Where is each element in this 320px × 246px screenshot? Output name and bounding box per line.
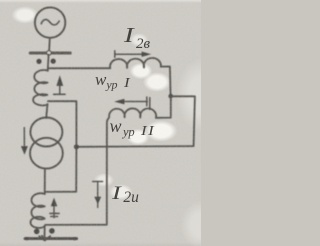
- wire right side to junction J2: [77, 145, 194, 148]
- label I2i: [112, 184, 139, 205]
- open junction circle on busbar: [47, 51, 51, 55]
- arrow left (annotation above w_ur_II) with double tick: [124, 101, 147, 103]
- wire w_ur_I to junction: [161, 67, 171, 96]
- winding w_ur_I (horizontal coil, loops up): [110, 58, 161, 68]
- busbar junction hatching: [39, 236, 50, 241]
- polarity dot b: [51, 59, 56, 64]
- wire w_ur_II left end down and to main line: [45, 122, 107, 225]
- bottom dot a: [34, 229, 40, 235]
- arrow up (annotation beside L1): [59, 85, 61, 94]
- arrow right I2v (top right annotation): [114, 51, 116, 57]
- wire T1 down to reactor L2: [44, 169, 46, 195]
- wire J1 down to winding w_ur_II: [156, 96, 171, 118]
- wire L1 to transformer: [46, 104, 47, 118]
- arrow down (primary current, left of T1): [23, 128, 25, 147]
- AC source G1: [35, 7, 65, 37]
- polarity dot a: [36, 59, 41, 64]
- wire J1 right and down right side: [171, 96, 195, 146]
- reactor L1 (top left coil): [33, 70, 48, 105]
- wire J2 down then left to main line: [45, 147, 76, 192]
- reactor L2 (bottom left coil): [30, 193, 44, 228]
- transformer T1 winding 2: [30, 138, 63, 169]
- wire L2 to bottom busbar: [44, 226, 46, 238]
- junction dot J1: [168, 94, 173, 99]
- junction dot J2: [74, 144, 79, 149]
- sine wave of source: [41, 20, 59, 25]
- winding w_ur_II (horizontal coil, loops up): [107, 108, 156, 122]
- label I2v: [124, 25, 150, 53]
- wire J2 up then left to main line: [48, 101, 77, 147]
- transformer T1 winding 1: [30, 118, 62, 147]
- wire source to busbar: [48, 38, 51, 52]
- label w_ur_II: [110, 117, 153, 139]
- wire busbar to reactor L1: [47, 54, 50, 70]
- node: branch to winding w_ur_I: [48, 67, 110, 69]
- label w_ur_I: [95, 71, 129, 91]
- bottom dot b: [49, 228, 55, 234]
- arrow up 2 (annotation beside L2): [53, 205, 55, 218]
- arrow down I2i (bottom annotation): [93, 181, 103, 183]
- bottom busbar: [25, 237, 77, 240]
- busbar (top): [30, 51, 70, 54]
